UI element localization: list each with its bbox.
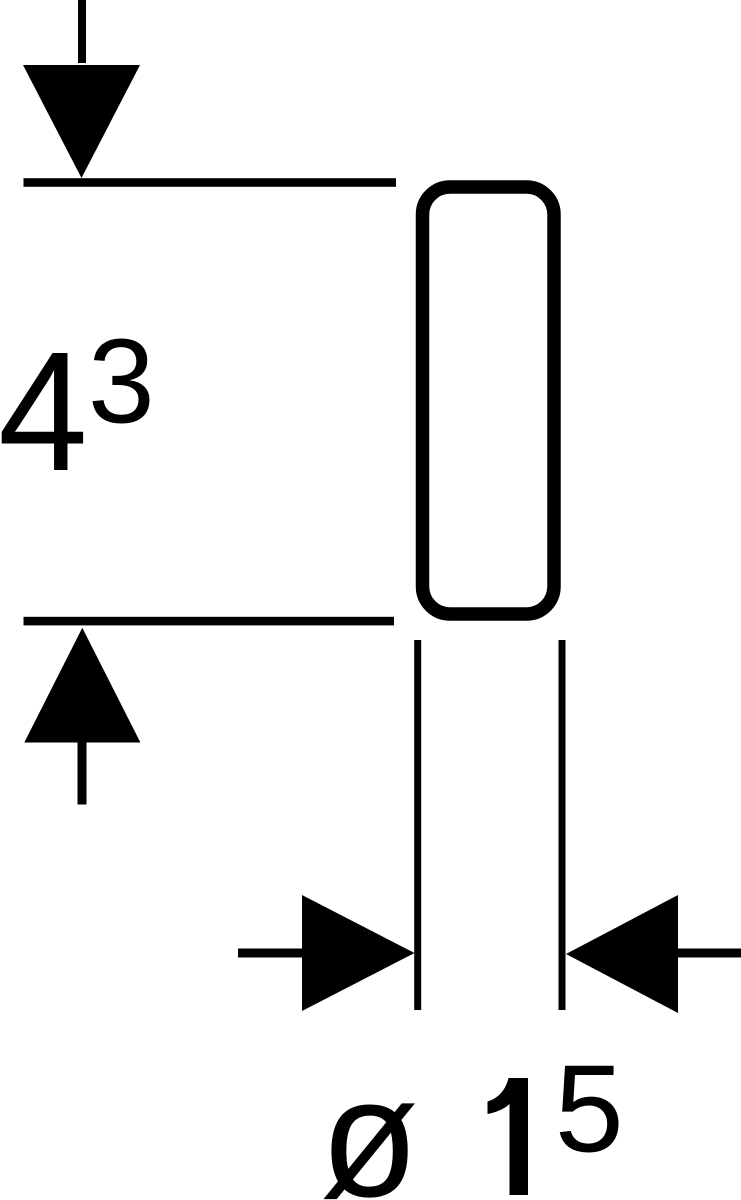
svg-text:3: 3 — [88, 315, 155, 449]
svg-text:5: 5 — [555, 1041, 624, 1179]
svg-text:4: 4 — [0, 317, 88, 507]
svg-text:ø: ø — [320, 1043, 419, 1200]
